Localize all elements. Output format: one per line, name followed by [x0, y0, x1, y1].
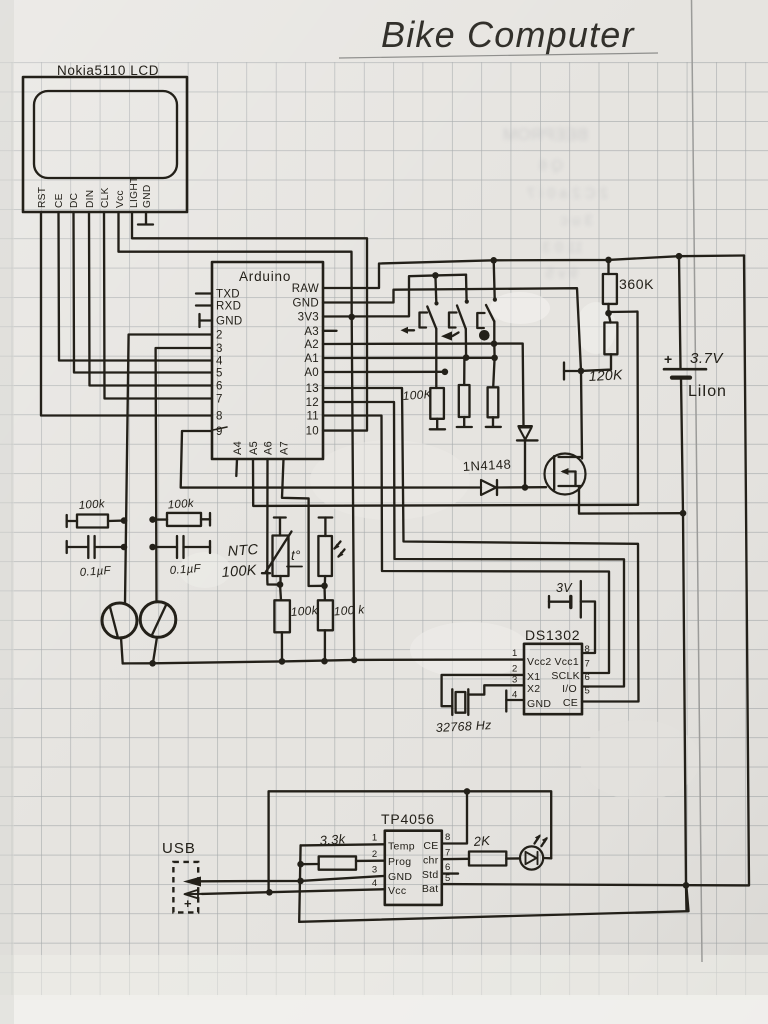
junction: rail / NTC pull-down	[279, 658, 286, 665]
Nokia5110 LCD module body	[23, 77, 187, 212]
wire: Arduino GND to MOSFET drain	[323, 288, 581, 371]
svg-text:GND: GND	[216, 316, 242, 328]
crystal 32768Hz plates	[451, 689, 453, 715]
TP4056 charge loop frame	[269, 791, 552, 892]
MOSFET source bar	[559, 485, 582, 487]
svg-text:3: 3	[216, 343, 223, 355]
junction: GND wire / divider chain	[297, 878, 304, 885]
TP4056 body	[385, 831, 442, 905]
gate terminal bar	[563, 363, 565, 380]
svg-text:Arduino: Arduino	[239, 269, 291, 284]
svg-text:4: 4	[372, 878, 378, 889]
svg-text:2: 2	[372, 849, 378, 860]
wire: button S2 to A1 node	[465, 329, 468, 358]
wire: button S3 through A2 and A1 to pull-down resistor	[493, 321, 494, 387]
svg-text:BEEPROM: BEEPROM	[503, 125, 588, 144]
svg-text:100K: 100K	[402, 387, 433, 403]
junction: rail / 3V3 feed	[351, 657, 358, 664]
resistor 2K	[469, 852, 506, 866]
NTC thermistor body	[273, 536, 289, 577]
junction: A0 / button 1	[442, 369, 449, 376]
push button S1 top contact	[434, 275, 437, 302]
svg-text:360K: 360K	[619, 276, 654, 292]
wire: Arduino A1 to button 2 output	[323, 357, 495, 360]
svg-text:RST: RST	[37, 187, 48, 208]
junction: filter 2 capacitor	[149, 544, 156, 551]
wire: LED to loop frame	[543, 857, 551, 860]
wheel sensor 1	[102, 603, 137, 638]
svg-text:3: 3	[512, 675, 518, 686]
MOSFET arrow	[563, 470, 576, 472]
junction: A1 end node	[491, 355, 498, 362]
wire: Arduino A2 to 1N4148 branch	[323, 344, 524, 426]
capacitor 0.1uF (filter 2)	[153, 546, 177, 548]
push button S3 lever	[486, 305, 494, 321]
svg-text:4: 4	[216, 356, 223, 368]
svg-text:t°: t°	[291, 548, 301, 563]
svg-text:LiIon: LiIon	[688, 383, 727, 400]
svg-text:7: 7	[216, 394, 223, 406]
svg-text:Std: Std	[422, 869, 439, 881]
DS1302 GND terminal	[506, 699, 524, 701]
wire: Arduino 11 to DS1302 SCLK	[323, 416, 609, 674]
svg-text:chr: chr	[423, 855, 439, 867]
svg-text:A7: A7	[279, 441, 291, 455]
wire: A2 branch diode to junction	[524, 442, 526, 488]
junction: divider midpoint	[605, 310, 612, 317]
ground below pull-down 1	[430, 428, 445, 430]
wire: LCD DIN down and to Arduino pin 6	[89, 212, 212, 386]
wire: Arduino A7 to LDR divider node	[282, 459, 325, 586]
svg-text:1: 1	[372, 833, 378, 844]
wire: TP4056 CE to loop frame	[442, 791, 467, 843]
svg-text:2 C 2 a 0 i 7: 2 C 2 a 0 i 7	[527, 185, 608, 202]
LED charge indicator	[520, 846, 543, 869]
svg-text:6: 6	[216, 381, 223, 393]
ground below pull-down 2	[457, 426, 472, 428]
svg-text:LIGHT: LIGHT	[129, 176, 140, 208]
svg-text:8: 8	[216, 411, 223, 423]
junction: gate node	[578, 368, 585, 375]
wire: LCD CLK down and to Arduino pin 7	[104, 212, 212, 399]
svg-text:Vcc: Vcc	[115, 190, 126, 208]
MOSFET Q1 body	[545, 454, 586, 495]
svg-text:100 k: 100 k	[333, 602, 365, 618]
battery plus plate	[664, 368, 706, 371]
svg-text:A5: A5	[248, 441, 260, 455]
USB Vcc arrow	[186, 893, 202, 895]
wire: 3V battery to DS1302 Vcc1	[581, 602, 595, 654]
wire: diode to MOSFET source node	[498, 486, 546, 489]
junction: A2 / button 3 output	[491, 340, 498, 347]
svg-text:A3: A3	[304, 326, 319, 338]
wire: Arduino 3V3 to button rail	[323, 275, 466, 317]
svg-text:GND: GND	[388, 871, 412, 883]
junction: LCD Vcc / 3V3	[348, 314, 355, 321]
wire: Arduino 12 to DS1302 I/O	[323, 402, 624, 687]
svg-text:DC: DC	[69, 193, 80, 208]
resistor 100k (filter 2)	[153, 518, 167, 520]
svg-text:3.7V: 3.7V	[690, 350, 724, 367]
wire: battery minus down to charger rail	[681, 378, 687, 911]
wire stub: Arduino A3	[323, 330, 337, 332]
MOSFET gate bar	[553, 456, 555, 490]
svg-text:3V: 3V	[556, 581, 573, 595]
wire: gate node to MOSFET	[581, 371, 582, 459]
svg-text:11: 11	[306, 411, 319, 423]
LED light arrows	[535, 836, 540, 844]
wire: Arduino A5 to battery divider sense rail	[253, 459, 638, 506]
LDR light arrows	[335, 542, 341, 549]
svg-text:X2: X2	[527, 683, 540, 695]
wire: Arduino pin 3 to wheel sensor 2	[156, 348, 212, 602]
svg-text:1N4148: 1N4148	[462, 456, 511, 474]
wire: DS1302 X1 to crystal	[442, 675, 524, 706]
push button S2 lever	[457, 306, 466, 329]
svg-text:Bike Computer: Bike Computer	[381, 14, 636, 55]
push button S1 press arrow	[404, 329, 414, 331]
svg-text:100k: 100k	[167, 498, 195, 512]
svg-text:100k: 100k	[290, 603, 319, 619]
svg-text:120K: 120K	[588, 366, 623, 384]
svg-text:+: +	[664, 351, 672, 367]
diode on A2 branch (vertical)	[519, 425, 532, 427]
battery minus plate	[672, 376, 690, 380]
svg-text:GND: GND	[142, 184, 153, 208]
svg-text:DIN: DIN	[85, 190, 96, 208]
junction: battery minus / Bat rail	[683, 882, 690, 889]
junction: Vcc wire / loop frame	[266, 889, 273, 896]
svg-text:CE: CE	[54, 193, 65, 208]
svg-text:X1: X1	[527, 671, 540, 683]
junction: A1 / button 2	[463, 354, 470, 361]
MOSFET drain bar	[559, 456, 582, 458]
svg-text:GND: GND	[527, 698, 551, 710]
svg-text:CE: CE	[423, 840, 438, 852]
wire: Arduino RAW to supply rail	[323, 256, 744, 289]
wire: TP4056 Vcc to USB	[202, 889, 385, 894]
wire: bottom charger return rail	[299, 885, 688, 921]
svg-text:RAW: RAW	[292, 283, 319, 295]
junction: NTC divider node	[277, 581, 284, 588]
push button S2 top contact	[465, 275, 468, 301]
push button S1 actuator bracket	[420, 313, 428, 328]
svg-text:+: +	[184, 896, 192, 911]
junction: LDR divider node	[321, 583, 328, 590]
wire: Temp divider chain down to return rail	[299, 845, 300, 921]
Arduino pin stub RXD	[196, 304, 212, 306]
svg-text:3V3: 3V3	[298, 312, 319, 324]
junction: filter 1 capacitor	[121, 544, 128, 551]
resistor 3.3k	[356, 860, 385, 863]
strike-through on pin 9 label	[213, 427, 227, 430]
junction: supply rail / 360K	[605, 257, 612, 264]
push button S3 press knob	[479, 330, 490, 341]
svg-text:Vcc1: Vcc1	[554, 656, 579, 668]
wire: LCD Vcc to Arduino 3V3 and down to DS1302 Vcc2 rail	[119, 212, 355, 660]
junction: diode / A2 branch / MOSFET	[522, 484, 529, 491]
wire: Arduino A0 to button 1 output	[323, 371, 445, 374]
USB GND arrow	[183, 877, 201, 887]
svg-text:2: 2	[512, 664, 518, 675]
svg-text:5: 5	[216, 368, 223, 380]
wire: LDR to divider node	[324, 576, 327, 586]
diode 1N4148	[481, 480, 496, 495]
svg-text:3 u c: 3 u c	[560, 212, 593, 229]
junction: rail / sensor 2	[149, 660, 156, 667]
LDR body	[318, 536, 332, 576]
push button S2 actuator bracket	[449, 313, 457, 328]
wire: button S1 to A0 node	[435, 329, 437, 372]
resistor 100K (pull-down 3)	[488, 387, 499, 417]
svg-text:Bat: Bat	[422, 883, 439, 895]
NTC thermistor terminal	[274, 516, 286, 518]
wire: DS1302 X2 to crystal	[468, 685, 524, 694]
svg-text:2K: 2K	[472, 833, 492, 849]
resistor 100K (pull-down 2)	[463, 358, 466, 385]
Arduino pin stub TXD	[196, 292, 212, 294]
svg-text:1: 1	[512, 648, 518, 659]
wire: right supply bus from rail to TP4056 Bat	[442, 256, 749, 886]
wire: LCD RST down and to Arduino pin 8	[41, 212, 212, 416]
Arduino module body	[212, 262, 323, 459]
svg-text:CLK: CLK	[100, 187, 111, 208]
push button S2 press arrow	[453, 333, 459, 337]
wire: LCD DC down and to Arduino pin 5	[74, 212, 213, 373]
svg-text:Prog: Prog	[388, 856, 411, 868]
resistor 120K	[609, 313, 611, 322]
svg-text:TXD: TXD	[216, 289, 240, 301]
svg-text:NTC: NTC	[227, 542, 259, 560]
svg-text:10: 10	[306, 426, 319, 438]
resistor 360K	[607, 260, 609, 274]
wire stub: TP4056 Std	[442, 872, 458, 874]
junction: rail / LDR pull-down	[321, 658, 328, 665]
USB connector (dashed)	[173, 862, 198, 913]
wire: divider midpoint to A5 rail	[609, 312, 639, 505]
svg-text:5: 5	[585, 686, 591, 697]
svg-text:RXD: RXD	[216, 301, 241, 313]
svg-text:6: 6	[585, 672, 591, 683]
svg-text:9 v 5: 9 v 5	[545, 265, 578, 282]
svg-text:A0: A0	[304, 367, 319, 379]
crystal 32768Hz body	[456, 692, 466, 713]
push button S3 actuator bracket	[477, 313, 484, 328]
resistor 100k (filter 1)	[66, 515, 68, 527]
capacitor 0.1uF (filter 1)	[66, 541, 68, 553]
junction: button rail / button 1	[432, 272, 439, 279]
svg-text:A1: A1	[304, 353, 319, 365]
wire: LCD LIGHT to Arduino pin 10	[132, 212, 367, 431]
junction: filter 1 resistor	[121, 517, 128, 524]
svg-text:DS1302: DS1302	[525, 627, 580, 643]
svg-text:USB: USB	[162, 840, 196, 857]
svg-text:I/O: I/O	[562, 683, 577, 695]
svg-text:8: 8	[445, 832, 451, 843]
junction: MOSFET source / battery minus	[680, 510, 687, 517]
wire: LCD CE down and to Arduino pin 4	[59, 212, 213, 361]
wire: Arduino pin 9 to 1N4148 diode rail	[181, 431, 481, 488]
wire stub: Arduino A4	[235, 459, 238, 476]
wire: Arduino 13 to DS1302 CE	[323, 388, 639, 702]
junction: supply rail / button 3	[490, 257, 497, 264]
ground below pull-down 3	[486, 426, 501, 428]
svg-text:7: 7	[445, 848, 451, 859]
svg-text:SCLK: SCLK	[551, 670, 580, 682]
svg-text:A2: A2	[304, 339, 319, 351]
svg-text:CE: CE	[563, 697, 578, 709]
svg-text:A6: A6	[263, 441, 275, 455]
svg-text:Temp: Temp	[388, 841, 415, 853]
resistor 100K (pull-down 1)	[435, 372, 437, 388]
junction: filter 2 resistor	[149, 516, 156, 523]
svg-text:100k: 100k	[78, 498, 106, 512]
svg-text:2: 2	[216, 330, 223, 342]
svg-text:11 0 3: 11 0 3	[542, 239, 583, 256]
push button S1 lever	[427, 307, 436, 329]
junction: supply rail / battery +	[676, 253, 683, 260]
resistor 100k below NTC	[280, 585, 281, 601]
junction: 3.3k / Temp divider	[297, 861, 304, 868]
wire: TP4056 GND to USB	[201, 876, 385, 881]
svg-text:12: 12	[306, 397, 319, 409]
resistor 100k below LDR	[323, 586, 326, 601]
wire: MOSFET source to battery minus	[579, 486, 683, 514]
svg-text:7: 7	[585, 659, 591, 670]
battery 3.7V LiIon positive lead	[679, 256, 681, 368]
junction: CE / loop frame	[464, 788, 471, 795]
svg-text:0.1µF: 0.1µF	[169, 563, 202, 577]
svg-text:13: 13	[306, 383, 319, 395]
wire: NTC to divider node	[279, 576, 281, 585]
LCD screen	[34, 91, 177, 178]
svg-text:3: 3	[372, 865, 378, 876]
wire: Arduino A6 to NTC divider node	[267, 459, 280, 585]
svg-text:Q 6: Q 6	[539, 157, 563, 174]
svg-text:3.3k: 3.3k	[319, 831, 347, 848]
wire: Arduino pin 2 to wheel sensor 1	[125, 335, 212, 604]
svg-text:6: 6	[445, 862, 451, 873]
svg-text:32768 Hz: 32768 Hz	[435, 718, 492, 735]
svg-text:TP4056: TP4056	[381, 811, 435, 827]
Arduino GND terminal	[198, 314, 200, 327]
wheel sensor 2	[140, 602, 176, 638]
wire: TP4056 chr to 2K	[442, 858, 469, 861]
ground symbol at LCD GND pin	[145, 212, 147, 224]
DS1302 body	[524, 644, 582, 714]
svg-text:Vcc: Vcc	[388, 885, 406, 897]
svg-text:GND: GND	[293, 298, 319, 310]
svg-text:Vcc2: Vcc2	[527, 656, 552, 668]
svg-text:A4: A4	[232, 441, 244, 455]
LDR terminal	[319, 516, 333, 518]
wire: sensor common rail to DS1302 Vcc2	[123, 660, 524, 664]
wire: TP4056 Temp to divider	[301, 844, 385, 845]
svg-text:100K: 100K	[221, 563, 258, 581]
push button S3 top contact	[494, 260, 495, 298]
svg-text:0.1µF: 0.1µF	[79, 565, 112, 579]
wire: sensor 2 to common rail	[153, 637, 157, 663]
wire: sensor 1 to common rail	[121, 638, 123, 664]
